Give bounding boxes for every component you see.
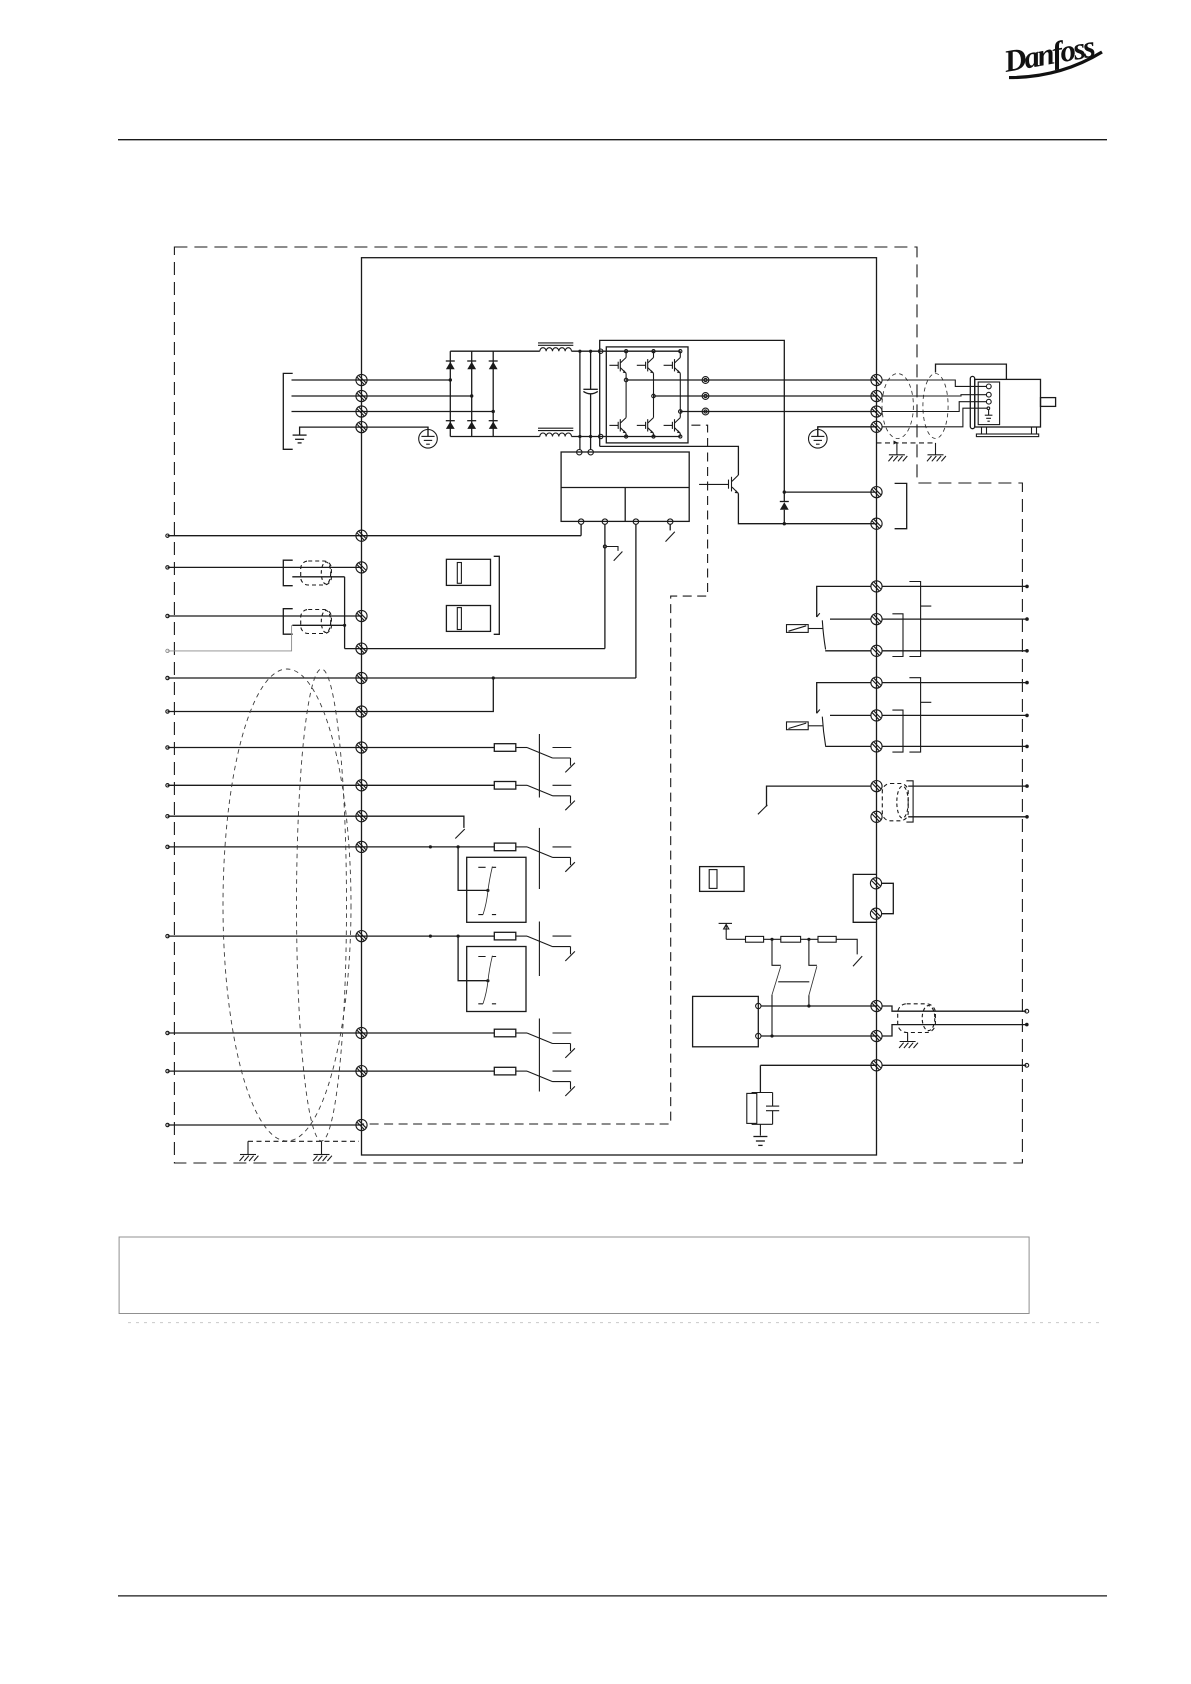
node tap2 join (807, 1004, 810, 1007)
IGBT leg W lower (679, 433, 681, 436)
node stub dot 19 (166, 746, 169, 749)
option slot box C (700, 867, 745, 892)
terminal 69 (356, 610, 367, 621)
cable screen motor ellipse 1 (882, 374, 913, 439)
terminal 91 L1 (356, 374, 367, 385)
wire terminal 32 line (168, 846, 495, 848)
wire relay 02 out2 (882, 714, 1027, 716)
diode D3 (489, 361, 498, 369)
node out3 end (1025, 649, 1029, 653)
switch blade 45 (527, 1071, 553, 1082)
terminal 93 L3 (356, 406, 367, 417)
bracket relay 01 inner (892, 614, 903, 657)
bracket relay 02 inner (892, 710, 903, 752)
wire terminal 18 line (168, 678, 494, 712)
wire brake IGBT emitter (738, 493, 875, 523)
node aux B end (1025, 815, 1029, 819)
relay 02 wire common (817, 683, 871, 714)
relay 02 coil (787, 722, 823, 730)
diode D1 (446, 361, 455, 369)
bracket brake resistor (895, 483, 907, 528)
node DC- left (578, 435, 581, 438)
switch tap1 blade (772, 966, 781, 995)
node chain tap 2 (807, 938, 810, 941)
node V output (652, 394, 656, 398)
wire comm 2 screen (292, 624, 344, 626)
terminal 04 (871, 677, 882, 688)
wire DC- rail choke to inverter (572, 436, 681, 438)
wire tap crossbar (778, 981, 809, 983)
node stub dot 69 (166, 614, 169, 617)
A54 dashes top (478, 956, 496, 958)
node L3-rectifier (492, 410, 495, 413)
header rule (118, 139, 1107, 141)
relay 01 coil (787, 625, 823, 633)
mains input connector bracket (283, 373, 292, 449)
wire motor U (882, 380, 986, 386)
node tap1 join (770, 1034, 773, 1037)
IGBT leg W upper (679, 351, 681, 357)
wire tap1 branch (772, 939, 781, 965)
ground screen clamp 1 (888, 443, 907, 461)
node stub dot 27 (166, 784, 169, 787)
motor base plate (976, 434, 1038, 437)
capacitor RC (766, 1093, 779, 1125)
node 33 tap a (429, 935, 432, 938)
wire A53 feed (458, 847, 488, 891)
node screen tick (894, 441, 898, 445)
terminal 18 (356, 706, 367, 717)
IGBT leg V upper (653, 351, 655, 357)
switch box A53 (467, 857, 526, 922)
switch contact 19 (553, 748, 575, 773)
node out5 end (1025, 714, 1029, 718)
wire terminal 20 line (168, 1124, 362, 1126)
wire SMPS out3 down (635, 524, 637, 678)
wire RC feed (759, 1065, 761, 1092)
wire chain lead (726, 938, 745, 940)
rectifier leg 3 (492, 351, 494, 436)
relay 01 wire common (817, 586, 871, 617)
relay 02 wire NO (830, 714, 871, 716)
node stub dot 12 (166, 534, 169, 537)
control card box (693, 996, 759, 1046)
wire motor V (882, 395, 986, 396)
rectifier leg 1 (449, 351, 451, 436)
resistor input 27 (494, 782, 516, 790)
relay 02 seat tick (817, 710, 820, 714)
IGBT leg W middle (679, 373, 681, 417)
wire terminal12 line (168, 535, 582, 537)
node stub dot 42 (166, 1031, 169, 1034)
switch blade 29 (455, 829, 465, 839)
terminal 19 (356, 742, 367, 753)
A54 lever (483, 956, 492, 1004)
wire motor shield strap (936, 364, 1007, 379)
wire terminal 13 line (168, 677, 636, 679)
earth symbol circled right (809, 427, 828, 448)
node 32 tap a (429, 845, 432, 848)
option slot box B (446, 606, 490, 632)
wire tap2 branch (809, 939, 817, 965)
switch contact 27 (553, 785, 575, 810)
ground motor internal (985, 410, 993, 422)
DC bus left leg (579, 351, 581, 449)
node brake diode top (783, 490, 786, 493)
terminal 92 L2 (356, 390, 367, 401)
terminal 29 (356, 811, 367, 822)
option slot A key (457, 563, 461, 584)
terminal 99 PE out (871, 421, 882, 432)
node brake diode bottom (783, 522, 786, 525)
wire terminal 33 line (168, 935, 495, 937)
wire net out A (882, 1006, 1026, 1011)
wire terminal chassis line (760, 1064, 876, 1066)
wire U output (626, 379, 876, 381)
terminal 27 (356, 780, 367, 791)
resistor chain 2 (781, 936, 801, 942)
relay 01 wire NC (825, 650, 871, 652)
cable gland comm 1 (301, 561, 332, 585)
IGBT leg V lower (653, 433, 655, 436)
resistor output 42 (494, 1029, 516, 1037)
terminal 32 (356, 841, 367, 852)
node switch S801 tap (603, 545, 606, 548)
SMPS divider vertical (624, 488, 626, 522)
relay 02 arm (822, 717, 825, 746)
relay 01 arm (822, 620, 825, 649)
wire net out B (882, 1025, 1026, 1036)
ground input 3-bar (293, 435, 307, 443)
node leg V top (652, 350, 655, 353)
cable gland comm 2 (301, 610, 332, 634)
bracket aux (906, 781, 913, 822)
cable gland net (898, 1004, 936, 1033)
terminal USB B (870, 908, 881, 919)
node stub dot 33 (166, 934, 169, 937)
DC bus right leg lower (590, 394, 592, 450)
wire grey stub 61 (168, 625, 292, 651)
wire relay 01 out1 (882, 585, 1027, 587)
wire PE out to earth (818, 427, 877, 437)
node chassis end (1025, 1063, 1029, 1067)
node rail circle top (599, 349, 603, 353)
DC bus right leg upper (590, 351, 592, 389)
node stub dot 18 (166, 710, 169, 713)
pin SMPS in right (588, 450, 593, 455)
terminal 97 V (871, 390, 882, 401)
resistor input 32 (494, 843, 516, 851)
node leg V bottom (652, 435, 655, 438)
motor terminal box (978, 382, 999, 425)
supply rail bar (719, 922, 732, 924)
A54 dashes bottom (478, 1003, 496, 1005)
terminal 01 (871, 581, 882, 592)
wire motor PE (882, 408, 987, 427)
motor body (975, 379, 1041, 427)
wire V output (654, 395, 877, 397)
motor terminal V (986, 392, 991, 397)
ground screen clamp 2 (927, 443, 946, 461)
terminal 95 PE (356, 422, 367, 433)
wire relay 01 out2 (882, 618, 1027, 620)
node net B end (1025, 1023, 1029, 1027)
note box (119, 1237, 1029, 1314)
bracket comm cable 1 (283, 560, 292, 586)
option slot box A (446, 559, 490, 585)
pin SMPS out 1 (578, 519, 583, 524)
diode D5 (467, 421, 476, 429)
node L1-rectifier (449, 378, 452, 381)
terminal 06 (871, 741, 882, 752)
node DC- right (589, 435, 592, 438)
terminal aux B (871, 811, 882, 822)
wire terminal 45 line (168, 1070, 495, 1072)
wire comm 1 screen (292, 576, 344, 578)
IGBT leg U lower (625, 433, 627, 436)
IGBT leg U middle (625, 373, 627, 417)
switch box A54 (467, 947, 526, 1012)
motor terminal U (986, 384, 991, 389)
earth symbol circled left (419, 427, 438, 448)
node leg W bottom (679, 435, 682, 438)
USB connector frame (853, 874, 876, 922)
resistor output 45 (494, 1067, 516, 1075)
relay 02 wire NC (825, 745, 871, 747)
wire 19 to switch (516, 747, 527, 749)
wire card A to bus (761, 1005, 877, 1007)
wire L3 phase 93 (292, 411, 494, 413)
cable gland aux (882, 784, 908, 821)
terminal 03 (871, 645, 882, 656)
IGBT W top (664, 358, 681, 374)
resistor chain 3 (818, 936, 836, 942)
switch on out2 (606, 547, 622, 561)
node leg W top (679, 350, 682, 353)
wire chain a (764, 938, 781, 940)
motor terminal W (986, 399, 991, 404)
ground RC (753, 1137, 767, 1146)
wire screen earth dashed (877, 442, 936, 444)
resistor chain 1 (746, 936, 764, 942)
transistor brake IGBT (699, 475, 738, 493)
node DC+ left (578, 350, 581, 353)
node aux A end (1025, 784, 1029, 788)
node 33 tap b (457, 935, 460, 938)
node stub dot 45 (166, 1069, 169, 1072)
node V double circle (702, 393, 709, 400)
node A53 wiper (486, 889, 489, 892)
diode D2 (467, 361, 476, 369)
pin card A (756, 1003, 761, 1008)
node stub dot 13 (166, 676, 169, 679)
node A54 wiper (486, 979, 489, 982)
motor shaft (1041, 398, 1056, 407)
node chain tap 1 (770, 938, 773, 941)
terminal 20 (356, 1119, 367, 1130)
node W output (679, 410, 683, 414)
terminal net B (871, 1030, 882, 1041)
supply rail arrow (724, 923, 729, 939)
SMPS box (561, 452, 689, 521)
node out2 end (1025, 617, 1029, 621)
IGBT W bottom (664, 418, 681, 434)
node out4 end (1025, 681, 1029, 685)
wire terminal 61 line (345, 648, 605, 650)
switch aux blade (758, 805, 768, 814)
diode D4 (446, 421, 455, 429)
wire L2 phase 92 (292, 395, 472, 397)
relay 01 wire NO (830, 618, 871, 620)
pin SMPS in left (577, 450, 582, 455)
wire chassis out (882, 1064, 1026, 1066)
cable screen control ellipse inner (297, 669, 347, 1141)
bracket relay 02 outer (909, 678, 931, 752)
wire A54 feed (458, 936, 488, 981)
wire aux out B (908, 816, 1026, 818)
ground net gland (899, 1033, 918, 1049)
wire terminal 19 line (168, 747, 495, 749)
switch blade 32 (527, 847, 553, 858)
terminal 33 (356, 931, 367, 942)
cable screen control ellipse outer (223, 669, 351, 1141)
Danfoss logo (1000, 27, 1104, 81)
node U output (624, 378, 628, 382)
capacitor DC link (583, 389, 597, 394)
outer dashed enclosure (EMC cabinet) (174, 247, 1022, 1163)
node out1 end (1025, 585, 1029, 589)
node net A end (1025, 1009, 1029, 1013)
wire terminal 69 line (168, 615, 362, 617)
wire tap1 to bus (771, 995, 773, 1036)
node leg U bottom (625, 435, 628, 438)
wire DC+ rail rectifier to choke (450, 350, 540, 352)
cable screen motor ellipse 2 (923, 374, 948, 439)
ground control screen 2 (313, 1141, 332, 1161)
pin SMPS out 3 (633, 519, 638, 524)
terminal 05 (871, 710, 882, 721)
bracket relay 01 outer (909, 582, 931, 657)
IGBT leg U upper (625, 351, 627, 357)
switch contact 45 (553, 1071, 575, 1096)
A53 lever (483, 867, 492, 915)
switch chain blade (853, 956, 862, 966)
IGBT U top (609, 358, 626, 374)
node W double circle (702, 408, 709, 415)
pin SMPS out 2 (602, 519, 607, 524)
terminal USB A (870, 878, 881, 889)
wire 45 to switch (516, 1070, 527, 1072)
switch blade 33 (527, 936, 553, 947)
motor foot right (1032, 427, 1037, 434)
relay 01 seat tick (817, 613, 820, 617)
rectifier leg 2 (471, 351, 473, 436)
ground control screen 1 (240, 1141, 259, 1161)
switch on out4 (666, 532, 675, 542)
wire card B to bus (761, 1035, 877, 1037)
terminal chassis (871, 1060, 882, 1071)
node 32 tap b (457, 845, 460, 848)
resistor RC (747, 1093, 757, 1123)
wire terminal 68 line (168, 566, 362, 568)
terminal 02 (871, 614, 882, 625)
terminal 61 (356, 643, 367, 654)
motor foot left (982, 427, 987, 434)
node stub dot 32 (166, 845, 169, 848)
wire 33 to switch (516, 935, 527, 937)
wire W output (680, 411, 876, 413)
wire control screen bottom dashed (248, 1140, 359, 1142)
diode brake freewheel (780, 492, 789, 524)
wire L1 phase 91 (292, 379, 451, 381)
node L2-rectifier (470, 394, 473, 397)
wire SMPS out4 stub (669, 524, 671, 530)
IGBT leg V middle (653, 373, 655, 417)
switch gang bar 2 (538, 828, 540, 889)
wire motor W (882, 402, 986, 412)
node leg U top (625, 350, 628, 353)
switch tap2 blade (809, 966, 817, 995)
wire terminal 29 line (168, 816, 464, 828)
pin SMPS out 4 (668, 519, 673, 524)
galvanic isolation dashed boundary (362, 425, 708, 1124)
diode D6 (489, 421, 498, 429)
node stub dot 61 (166, 649, 169, 652)
wire aux out A (908, 785, 1026, 787)
wire 32 to switch (516, 846, 527, 848)
terminal aux A (871, 781, 882, 792)
wire relay 01 out3 (882, 650, 1027, 652)
inductor DC- choke (538, 428, 573, 436)
inductor DC+ choke (538, 343, 573, 351)
wire terminal 42 line (168, 1032, 495, 1034)
node stub dot 29 (166, 815, 169, 818)
terminal 96 U (871, 374, 882, 385)
node rail circle bottom (599, 434, 603, 438)
node out6 end (1025, 745, 1029, 749)
inverter outer frame (600, 340, 785, 492)
pin card B (756, 1033, 761, 1038)
wire relay 02 out1 (882, 682, 1027, 684)
terminal 12 (356, 530, 367, 541)
SMPS divider horizontal (561, 487, 689, 489)
wire SMPS out1 to terminal 12 (580, 524, 582, 535)
wire chain to switch (836, 939, 857, 954)
switch contact 32 (553, 847, 575, 872)
switch gang bar 1 (538, 734, 540, 798)
switch gang bar 4 (538, 1019, 540, 1092)
option slot B key (457, 608, 461, 630)
IGBT V bottom (637, 418, 654, 434)
wire RC top (752, 1092, 773, 1094)
wire relay 02 out3 (882, 745, 1027, 747)
wire aux 786 left hook (767, 786, 872, 806)
wire tap2 to bus (808, 995, 810, 1006)
terminal 13 (356, 672, 367, 683)
wire 42 to switch (516, 1032, 527, 1034)
node stub dot 68 (166, 566, 169, 569)
option slot C key (709, 870, 717, 889)
wire 27 to switch (516, 784, 527, 786)
A53 dashes top (478, 866, 496, 868)
switch blade 42 (527, 1033, 553, 1044)
motor terminal PE (987, 407, 990, 410)
terminal net A (871, 1000, 882, 1011)
switch contact 33 (553, 936, 575, 961)
terminal 68 (356, 562, 367, 573)
wire terminal 27 line (168, 784, 495, 786)
wire brake R- (784, 491, 875, 493)
